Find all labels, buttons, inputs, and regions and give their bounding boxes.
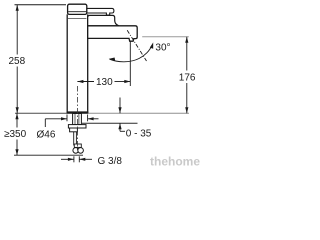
svg-text:258: 258 [9, 56, 26, 67]
258 dimension line [16, 5, 18, 55]
svg-text:0 - 35: 0 - 35 [126, 128, 152, 139]
arc arrowhead right [150, 42, 153, 48]
0-35 lower leader with up arrow at deck bottom [119, 123, 121, 131]
head cap (cartridge housing) [88, 15, 119, 25]
svg-text:≥350: ≥350 [4, 129, 27, 140]
>=350 dimension line [16, 113, 18, 127]
G3/8 fitting: collar [74, 144, 81, 147]
body column [67, 14, 88, 112]
258 dim: top extension line [15, 4, 67, 6]
counter deck top line [15, 112, 88, 114]
threaded shank [73, 114, 82, 125]
svg-text:thehome: thehome [150, 154, 200, 168]
svg-text:Ø46: Ø46 [37, 130, 56, 141]
G3/8 fitting: hose ends (two lobes) [73, 148, 79, 154]
svg-text:176: 176 [179, 72, 196, 83]
130 dim: right extension line from outlet [129, 41, 131, 86]
body bottom thick edge [67, 111, 89, 113]
svg-text:G 3/8: G 3/8 [98, 156, 123, 167]
0-35 upper extension with down arrow at deck top [119, 98, 121, 114]
spout [88, 26, 138, 41]
centerline (dash-dot) [76, 86, 78, 152]
mounting nut (flange) [68, 125, 86, 128]
clearance line at 350 below deck [14, 154, 83, 156]
body/cartridge seam line [67, 18, 86, 20]
supply pipe [73, 132, 75, 146]
dia46 left leader: bend down to label [45, 118, 67, 120]
lever bar [87, 8, 114, 15]
counter deck bottom line [82, 122, 138, 124]
lower adapter block [70, 128, 78, 132]
svg-text:130: 130 [96, 77, 113, 88]
G3/8 dimension [73, 156, 75, 162]
svg-text:30°: 30° [155, 42, 170, 53]
30deg dash-dot tilted line [127, 30, 146, 61]
handle block [68, 4, 87, 14]
handle seam [68, 11, 86, 13]
dia46 right arrow [88, 118, 99, 120]
30deg arc [110, 46, 152, 62]
130 dimension line [77, 81, 94, 83]
arc arrowhead left [109, 58, 116, 61]
dia46 extension ticks below body corners [66, 115, 68, 122]
spout outlet level reference line [142, 36, 189, 38]
176 dimension line [186, 37, 188, 71]
